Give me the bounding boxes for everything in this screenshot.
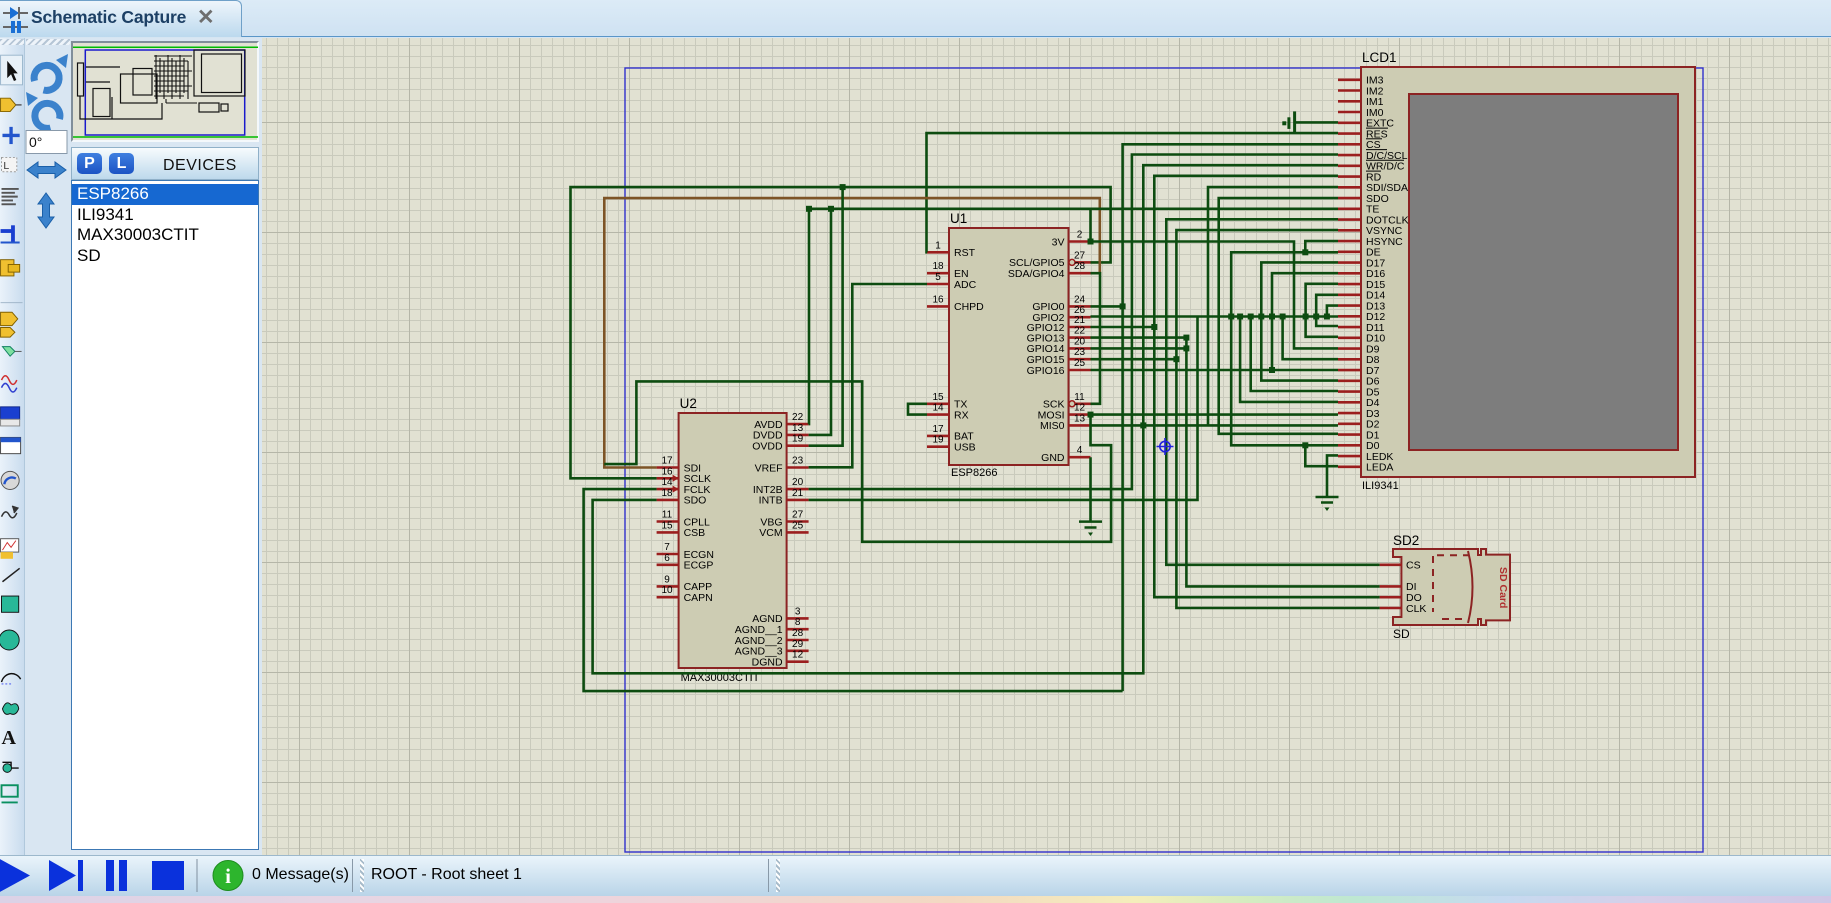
svg-text:25: 25 (1074, 358, 1086, 369)
wire net D4 riser (1240, 317, 1338, 402)
svg-text:17: 17 (661, 456, 673, 467)
chip LCD1 ILI9341 body (1361, 67, 1695, 477)
toolbar marker icon (2, 785, 18, 802)
pin ADC (5) of U1 (927, 272, 977, 291)
svg-text:27: 27 (792, 510, 804, 521)
pin INT2B (20) of U2 (753, 477, 809, 496)
svg-text:22: 22 (1074, 326, 1086, 337)
toolbar subcircuit icon (1, 260, 20, 276)
pin GPIO12 (21) of U1 (1027, 315, 1091, 334)
svg-text:SDO: SDO (684, 495, 707, 507)
pin GPIO16 (25) of U1 (1027, 358, 1091, 377)
pin AVDD (22) of U2 (754, 412, 808, 431)
pin CS of LCD1 (1338, 139, 1382, 151)
pin GPIO2 (26) of U1 (1032, 305, 1090, 324)
wire net D5 riser (1251, 317, 1338, 392)
wire net SDI (brown): U2 SDI up and over to U1 SDA/GPIO4 (604, 198, 1100, 467)
junction D12 rail (1303, 314, 1309, 320)
tab bar (0, 0, 1831, 37)
pause button (106, 860, 127, 891)
pin HSYNC of LCD1 (1338, 236, 1403, 248)
toolbar 2D text icon (2, 727, 17, 749)
pin GPIO14 (20) of U1 (1027, 336, 1091, 355)
svg-text:ILI9341: ILI9341 (1362, 480, 1399, 492)
schematic canvas (262, 38, 1831, 855)
junction GPIO15/VSYNC (1173, 356, 1179, 362)
junction D12 rail (1313, 314, 1319, 320)
pin VCM (25) of U2 (759, 520, 808, 539)
junction 3V (1088, 239, 1094, 245)
pin SCK (11) of U1 (1043, 392, 1091, 411)
toolbar 2D symbol icon (2, 762, 18, 772)
pin AGND (3) of U2 (752, 606, 808, 625)
pin GPIO15 (23) of U1 (1027, 347, 1091, 366)
junction D12 rail (1248, 314, 1254, 320)
wire GPIO12 spur (1091, 326, 1155, 329)
pin SDO (18) of U2 (657, 488, 707, 507)
svg-text:0°: 0° (29, 134, 42, 150)
pin RD of LCD1 (1338, 171, 1382, 183)
svg-text:19: 19 (792, 434, 804, 445)
svg-text:ADC: ADC (954, 279, 977, 291)
pin D6 of LCD1 (1338, 376, 1380, 388)
svg-text:RX: RX (954, 409, 969, 421)
wire net HSYNC to DE (1305, 241, 1338, 252)
wire TE to 3V link (1089, 209, 1092, 242)
junction DE/D12 (1228, 314, 1234, 320)
junction D12 rail (1237, 314, 1243, 320)
wire net EXTC to ground (1295, 121, 1338, 124)
toolbar pin icon (2, 347, 21, 357)
svg-text:DGND: DGND (752, 657, 783, 669)
preview pane mini schematic (73, 47, 258, 137)
junction GPIO13 (1183, 335, 1189, 341)
wire GPIO15 spur (1091, 358, 1177, 361)
wire net INT2B to LCD D/C/SCL (809, 155, 1338, 490)
ground G3 at EXTC (rotated) (1282, 111, 1294, 133)
wire net D15 to D10 (1306, 284, 1338, 337)
toolbar 2D circle icon (0, 630, 19, 650)
wire net D12/GPIO2 rail (1091, 315, 1339, 318)
tab icon diode symbol (3, 7, 28, 33)
svg-text:23: 23 (792, 456, 804, 467)
LCD1 screen area (1409, 94, 1678, 450)
svg-text:ECGP: ECGP (684, 560, 714, 572)
pin D4 of LCD1 (1338, 397, 1380, 409)
pin EXTC of LCD1 (1338, 118, 1394, 130)
toolbar wire label icon (2, 157, 17, 171)
svg-text:21: 21 (1074, 315, 1086, 326)
svg-text:CLK: CLK (1406, 603, 1426, 615)
toolbar 2D box icon (2, 596, 19, 612)
svg-text:16: 16 (932, 294, 944, 305)
toolbar 2D line icon (2, 568, 19, 581)
pin GND (4) of U1 (1041, 445, 1090, 464)
svg-text:20: 20 (1074, 336, 1086, 347)
pin IM0 of LCD1 (1338, 107, 1384, 119)
svg-text:18: 18 (661, 488, 673, 499)
wire net 3V to LCD D9 (1091, 242, 1339, 349)
pin DOTCLK of LCD1 (1338, 214, 1409, 226)
info icon (213, 861, 243, 891)
svg-text:16: 16 (661, 466, 673, 477)
toolbar drag grip (0, 39, 24, 45)
pin SDA/GPIO4 (28) of U1 (1008, 261, 1091, 280)
pin DGND (12) of U2 (752, 650, 809, 669)
wire net GND of U1 down (1089, 457, 1092, 521)
junction AVDD/TE (806, 206, 812, 212)
wire net LEDA riser (1305, 445, 1338, 466)
svg-text:15: 15 (932, 392, 944, 403)
svg-text:13: 13 (792, 423, 804, 434)
pin TE of LCD1 (1338, 204, 1379, 216)
pin D16 of LCD1 (1338, 268, 1385, 280)
svg-text:ESP8266: ESP8266 (951, 467, 997, 479)
pin D14 of LCD1 (1338, 290, 1385, 302)
toolbar bus icon (1, 225, 20, 242)
pin CPLL (11) of U2 (657, 510, 710, 529)
svg-text:22: 22 (792, 412, 804, 423)
wire OVDD riser (809, 187, 843, 446)
pin DVDD (13) of U2 (753, 423, 809, 442)
wire net D8 riser (1283, 317, 1338, 360)
wire net RES: LCD RES to U1 RST (927, 133, 1339, 252)
svg-text:15: 15 (661, 520, 673, 531)
pin CLK of SD2 (1380, 603, 1427, 615)
svg-text:A: A (2, 727, 17, 749)
wire GPIO14 spur (1091, 347, 1187, 350)
pin OVDD (19) of U2 (752, 434, 808, 453)
wire net D13 spur (1327, 306, 1338, 317)
wire net VSYNC to SD CLK (1176, 230, 1379, 608)
junction D12 rail (1258, 314, 1264, 320)
svg-text:SD Card: SD Card (1497, 567, 1509, 608)
svg-text:LCD1: LCD1 (1362, 50, 1397, 65)
svg-text:i: i (225, 864, 231, 888)
wire net D17-D6 (1261, 262, 1338, 380)
svg-text:L: L (3, 160, 9, 172)
pin RES of LCD1 (1338, 128, 1388, 140)
pin D9 of LCD1 (1338, 343, 1380, 355)
svg-text:U1: U1 (950, 211, 967, 226)
svg-text:5: 5 (935, 272, 941, 283)
svg-text:6: 6 (664, 553, 670, 564)
pin D11 of LCD1 (1338, 322, 1385, 334)
toolbar graph mode icon (2, 376, 17, 392)
wire MOSI branch loop to FCLK rail (604, 381, 1111, 541)
status bar (0, 855, 1831, 896)
ground G1 below U1 (1079, 522, 1102, 536)
pin GPIO0 (24) of U1 (1032, 294, 1090, 313)
pin WR/D/C of LCD1 (1338, 160, 1405, 172)
svg-text:SDA/GPIO4: SDA/GPIO4 (1008, 268, 1065, 280)
svg-text:SD: SD (1393, 627, 1410, 641)
pin D10 of LCD1 (1338, 333, 1385, 345)
svg-text:24: 24 (1074, 294, 1086, 305)
pin DI of SD2 (1380, 581, 1417, 593)
svg-text:10: 10 (661, 585, 673, 596)
toolbar junction dot icon (2, 127, 19, 144)
toolbar 2D path icon (2, 703, 18, 715)
wire net D16-D7 (1272, 273, 1338, 370)
pin IM2 of LCD1 (1338, 85, 1384, 97)
svg-text:28: 28 (792, 628, 804, 639)
svg-text:CHPD: CHPD (954, 301, 984, 313)
svg-text:11: 11 (1074, 392, 1085, 403)
svg-text:VCM: VCM (759, 527, 782, 539)
svg-text:RST: RST (954, 247, 976, 259)
pin CSB (15) of U2 (657, 520, 706, 539)
toolbar instrument icon (1, 539, 19, 559)
svg-text:3V: 3V (1052, 236, 1065, 248)
wire net CS-GPIO0: LCD CS to U1 GPIO0 and FCLK rail (1123, 144, 1338, 691)
toolbar voltage probe icon (1, 437, 21, 453)
junction DVDD/TE (828, 206, 834, 212)
svg-text:11: 11 (662, 510, 673, 521)
mirror vertical button (38, 193, 54, 228)
P button (77, 153, 102, 174)
pin DE of LCD1 (1338, 247, 1381, 259)
pin VREF (23) of U2 (755, 456, 809, 475)
junction D12 rail (1269, 314, 1275, 320)
svg-text:LEDA: LEDA (1366, 462, 1393, 474)
junction MIS0/SDO rail (1140, 422, 1146, 428)
svg-text:CSB: CSB (684, 527, 706, 539)
svg-text:9: 9 (664, 574, 670, 585)
toolbar generator icon (2, 506, 18, 518)
wire net LEDK to ground (1327, 455, 1338, 497)
wire DVDD riser (809, 209, 831, 435)
pin D12 of LCD1 (1338, 311, 1385, 323)
svg-text:4: 4 (1077, 445, 1083, 456)
svg-text:27: 27 (1074, 250, 1086, 261)
rotate clockwise button (34, 54, 68, 90)
L button (109, 153, 134, 174)
pin RST (1) of U1 (927, 240, 976, 259)
play button (0, 858, 30, 893)
junction DE/HSYNC (1302, 249, 1308, 255)
pin D1 of LCD1 (1338, 429, 1380, 441)
wire net TE power rail (809, 208, 1338, 211)
svg-text:CS: CS (1406, 560, 1421, 572)
step button (49, 860, 83, 891)
junction GPIO0/CS rail (1120, 303, 1126, 309)
svg-text:1: 1 (935, 240, 941, 251)
junction GPIO14/SD DI (1183, 345, 1189, 351)
pin SCL/GPIO5 (27) of U1 (1009, 250, 1090, 269)
sheet border (625, 68, 1703, 852)
pin D7 of LCD1 (1338, 365, 1380, 377)
svg-text:7: 7 (664, 542, 670, 553)
wire net SDO-LCD to D1 (1219, 198, 1338, 434)
pin EN (18) of U1 (927, 261, 969, 280)
stop button (152, 861, 184, 890)
wire net DOTCLK to SD CS (1166, 219, 1379, 565)
svg-text:GPIO16: GPIO16 (1027, 365, 1065, 377)
separator (196, 859, 198, 892)
svg-text:20: 20 (792, 477, 804, 488)
svg-text:U2: U2 (680, 396, 697, 411)
wire TX-RX loopback (908, 404, 927, 415)
svg-text:OVDD: OVDD (752, 441, 783, 453)
pin SDI (17) of U2 (657, 456, 702, 475)
rotate column drag grip (26, 39, 70, 45)
svg-text:14: 14 (661, 477, 673, 488)
svg-text:12: 12 (1074, 403, 1086, 414)
svg-text:MIS0: MIS0 (1040, 420, 1065, 432)
junction MOSI (1088, 412, 1094, 418)
pin CS of SD2 (1380, 560, 1421, 572)
junction D12 rail (1280, 314, 1286, 320)
svg-text:12: 12 (792, 650, 804, 661)
pin CAPN (10) of U2 (657, 585, 713, 604)
pin D13 of LCD1 (1338, 300, 1385, 312)
pin VBG (27) of U2 (760, 510, 808, 529)
wire net SCLK: U2 SCLK up and over to U1 SCL/GPIO5 (571, 187, 1111, 478)
wire net FCLK: U2 FCLK down and across (584, 489, 1123, 691)
rotation angle box 0 degrees (26, 131, 67, 154)
toolbar component icon (1, 98, 22, 111)
origin marker crosshair (1157, 438, 1174, 455)
wire net SDI/SDA riser (1208, 187, 1338, 425)
svg-text:3: 3 (795, 606, 801, 617)
wire net D14-D11 (1316, 295, 1338, 326)
junction OVDD/SCLK rail (840, 184, 846, 190)
svg-text:GND: GND (1041, 452, 1065, 464)
svg-text:INTB: INTB (759, 495, 783, 507)
pin ECGP (6) of U2 (657, 553, 714, 572)
svg-text:18: 18 (932, 261, 944, 272)
wire net MOSI-D3 row (1091, 413, 1339, 416)
pin LEDA of LCD1 (1338, 462, 1393, 474)
pin MOSI (12) of U1 (1038, 403, 1091, 422)
wire AVDD riser (807, 209, 810, 424)
pin IM3 of LCD1 (1338, 75, 1384, 87)
wire GPIO16 row (1091, 369, 1273, 372)
svg-text:29: 29 (792, 639, 804, 650)
wire net GPIO13 to SD DI (1091, 338, 1380, 587)
pin DO of SD2 (1380, 592, 1422, 604)
toolbar 2D arc icon (2, 674, 21, 684)
svg-text:2: 2 (1077, 230, 1083, 241)
pin SDI/SDA of LCD1 (1338, 182, 1408, 194)
svg-text:USB: USB (954, 442, 976, 454)
pin D3 of LCD1 (1338, 408, 1380, 420)
pin IM1 of LCD1 (1338, 96, 1384, 108)
rotate counter-clockwise button (26, 92, 60, 128)
svg-text:8: 8 (795, 617, 801, 628)
toolbar selection arrow icon (1, 55, 23, 85)
chip U2 MAX30003CTIT body (679, 413, 787, 668)
wire net ADC-VREF: U1 ADC to U2 VREF (809, 284, 927, 467)
pin D5 of LCD1 (1338, 386, 1380, 398)
junction D12 rail (1324, 314, 1330, 320)
svg-text:17: 17 (932, 424, 944, 435)
pin D8 of LCD1 (1338, 354, 1380, 366)
svg-text:VREF: VREF (755, 462, 783, 474)
pin GPIO13 (22) of U1 (1027, 326, 1091, 345)
junction GPIO12/RD (1151, 324, 1157, 330)
pin MIS0 (13) of U1 (1040, 413, 1091, 432)
pin D15 of LCD1 (1338, 279, 1385, 291)
toolbar text script icon (2, 189, 19, 204)
pin RX (14) of U1 (927, 403, 969, 422)
pin SDO of LCD1 (1338, 193, 1389, 205)
pin ECGN (7) of U2 (657, 542, 714, 561)
wire net SDA-SCK link (1091, 273, 1101, 404)
pin D2 of LCD1 (1338, 419, 1380, 431)
pin D0 of LCD1 (1338, 440, 1380, 452)
wire net INTB (809, 317, 1198, 500)
chip U1 ESP8266 body (949, 228, 1069, 465)
pin D/C/SCL of LCD1 (1338, 150, 1408, 162)
toolbar current probe icon (1, 471, 19, 489)
svg-text:14: 14 (932, 403, 944, 414)
toolbar separator (1, 302, 23, 304)
pin CAPP (9) of U2 (657, 574, 713, 593)
pin AGND__3 (29) of U2 (735, 639, 809, 658)
junction LEDA/D0 (1302, 442, 1308, 448)
junction GPIO16/D7 (1269, 367, 1275, 373)
pin FCLK (14) of U2 (657, 477, 711, 496)
wire net MIS0-D2 row (1091, 424, 1339, 427)
pin D17 of LCD1 (1338, 257, 1385, 269)
pin AGND__2 (28) of U2 (735, 628, 809, 647)
wire net RD-GPIO12-SDDO (1154, 176, 1379, 597)
ground G2 below LEDK (1316, 497, 1339, 511)
pin CHPD (16) of U1 (927, 294, 984, 313)
svg-text:25: 25 (792, 520, 804, 531)
pin LEDK of LCD1 (1338, 451, 1393, 463)
pin BAT (17) of U1 (927, 424, 974, 443)
svg-text:21: 21 (792, 488, 804, 499)
svg-text:23: 23 (1074, 347, 1086, 358)
pin INTB (21) of U2 (759, 488, 809, 507)
pin AGND__1 (8) of U2 (735, 617, 809, 636)
toolbar terminal icon (1, 312, 18, 337)
pin 3V (2) of U1 (1052, 230, 1091, 249)
svg-text:19: 19 (932, 435, 944, 446)
svg-text:SD2: SD2 (1393, 533, 1419, 548)
wire GPIO0 spur (1091, 305, 1123, 308)
mirror horizontal button (27, 162, 66, 178)
svg-text:CAPN: CAPN (684, 592, 713, 604)
component SD2 card socket body (1393, 549, 1510, 625)
pin SCLK (16) of U2 (657, 466, 711, 485)
svg-text:13: 13 (1074, 413, 1086, 424)
wire net SDO-U2: U2 SDO across bottom up to LCD WR/D/C (593, 165, 1338, 673)
pin TX (15) of U1 (927, 392, 967, 411)
wire net DE to D0 (1231, 252, 1338, 445)
svg-text:28: 28 (1074, 261, 1086, 272)
toolbar tape recorder icon (1, 407, 20, 426)
pin VSYNC of LCD1 (1338, 225, 1403, 237)
pin USB (19) of U1 (927, 435, 976, 454)
left column (0, 38, 262, 855)
